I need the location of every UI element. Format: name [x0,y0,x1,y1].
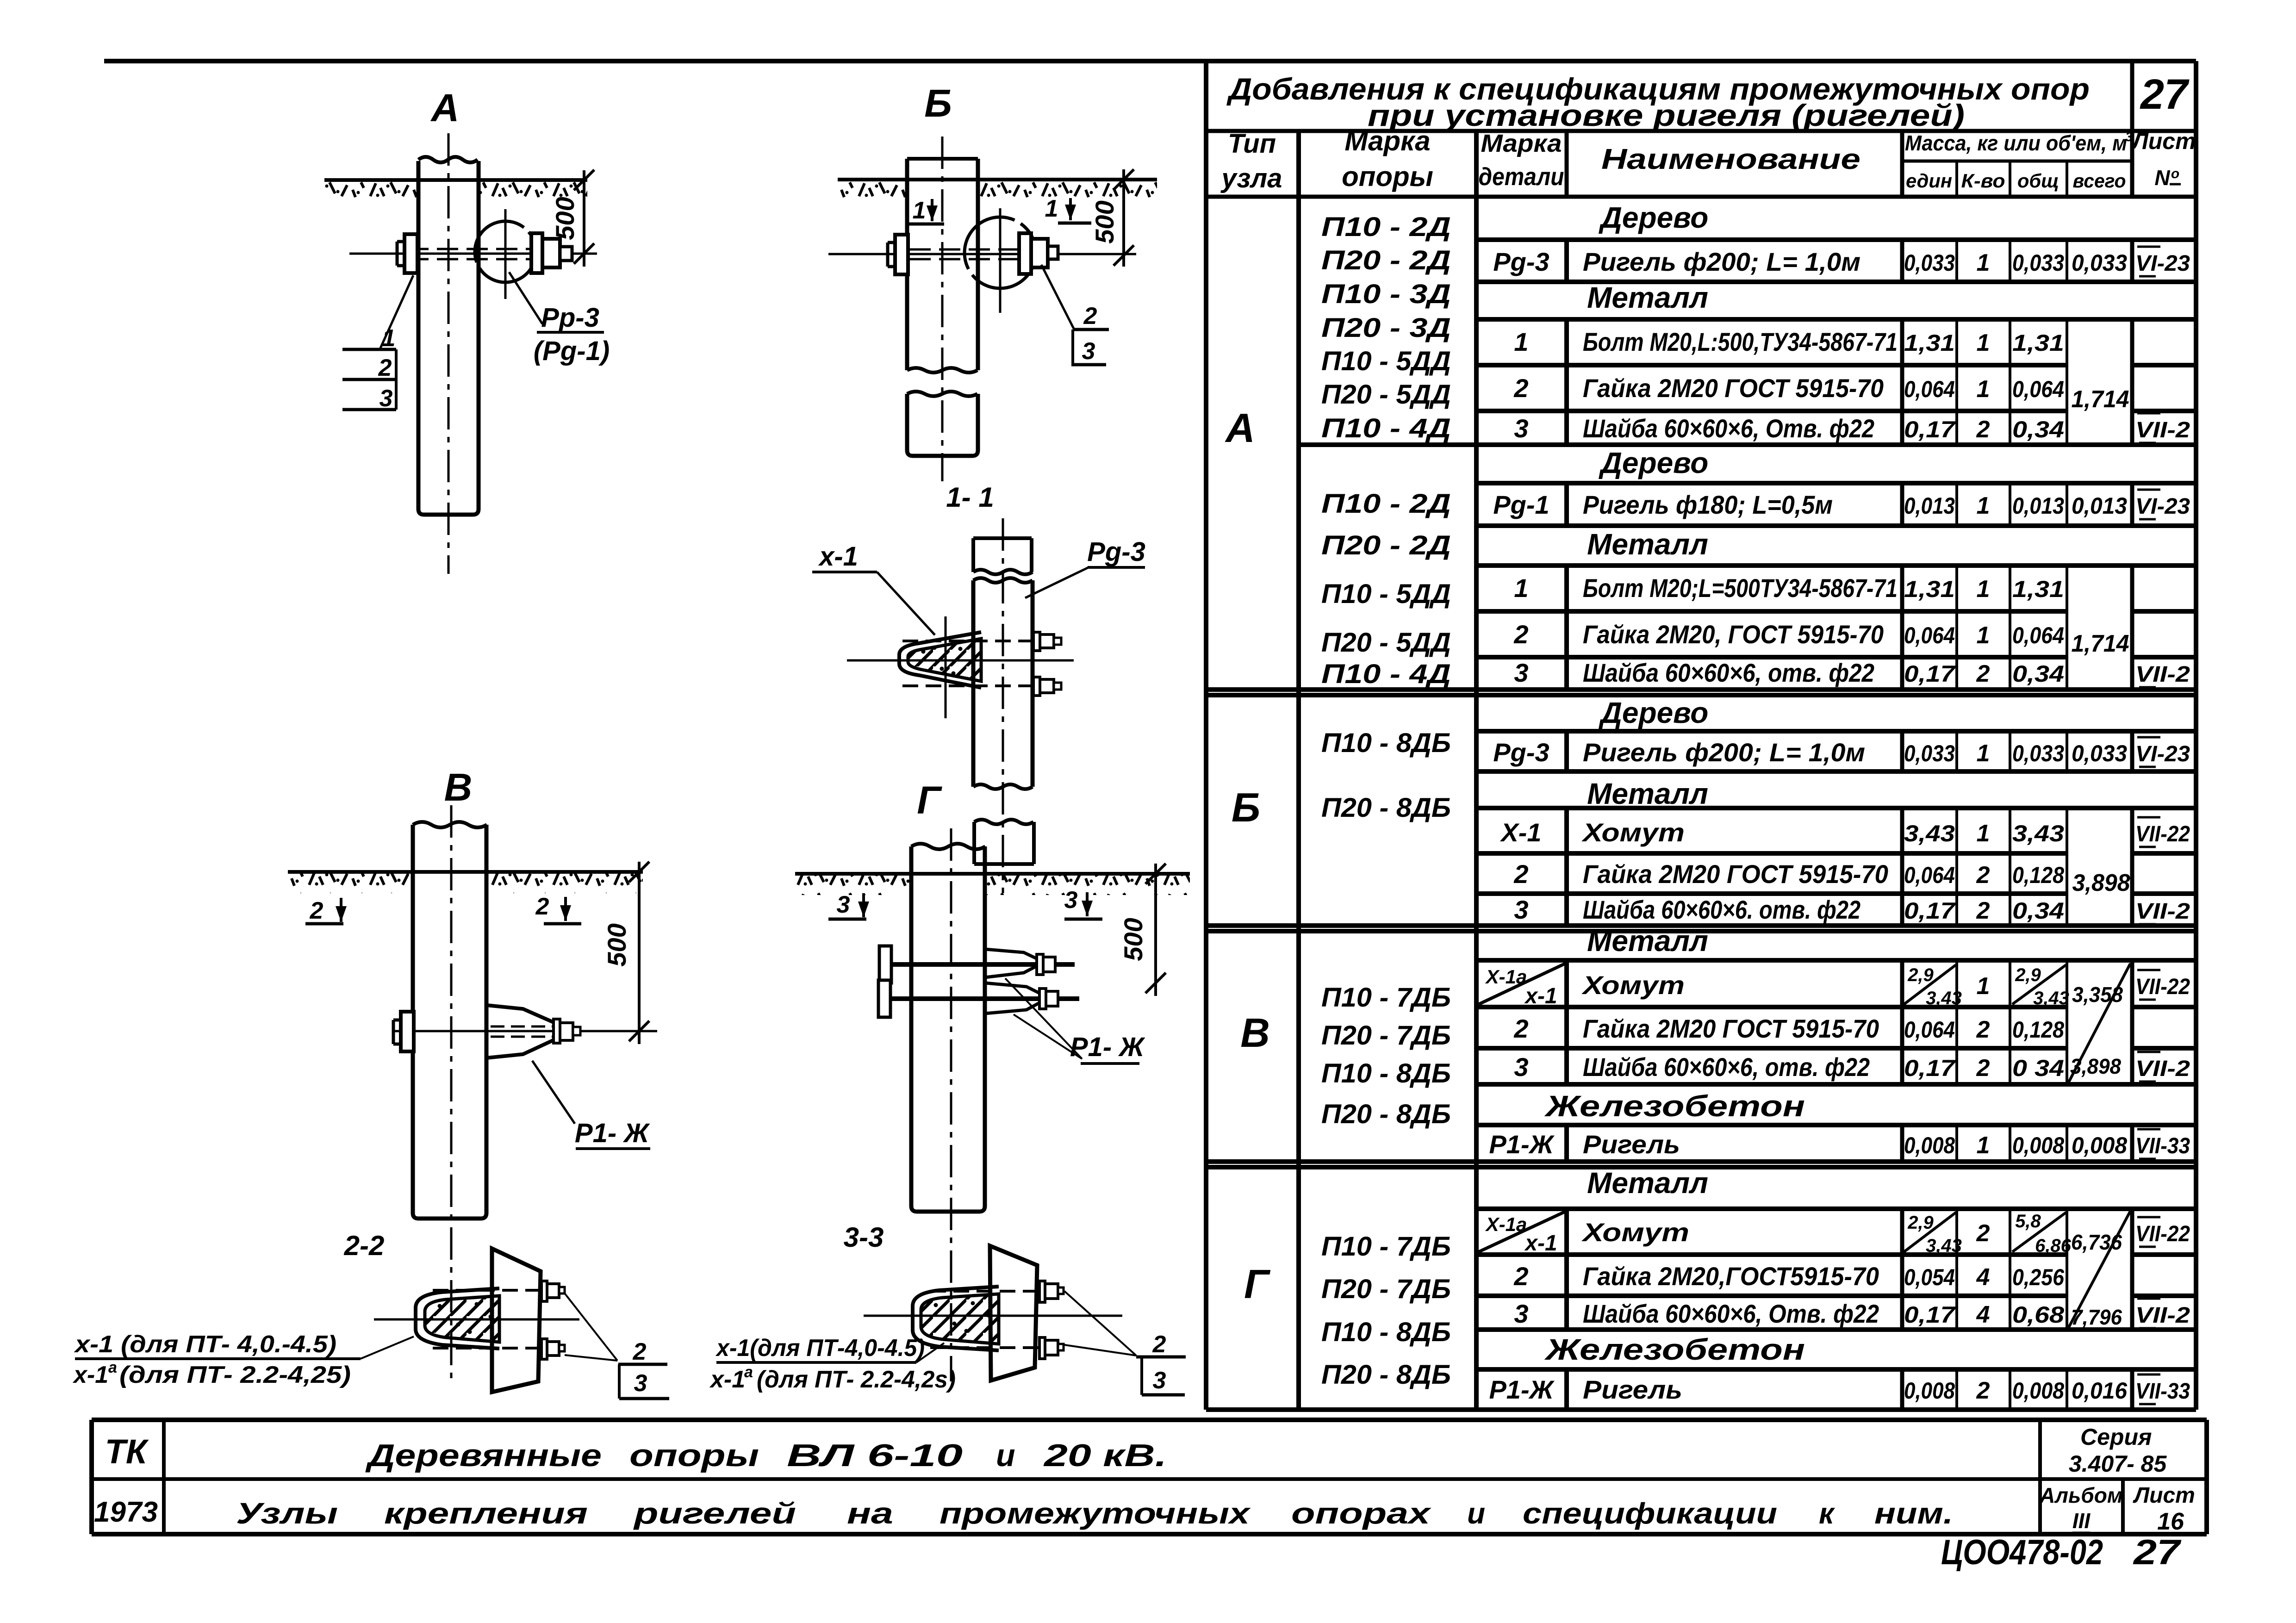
section 1-1 riegel dots [921,650,926,654]
svg-text:1: 1 [1514,327,1528,356]
node B dimension 500 [1122,169,1125,267]
svg-text:1: 1 [1977,1132,1990,1159]
svg-text:3: 3 [837,891,850,918]
svg-text:6,86: 6,86 [2035,1236,2072,1256]
svg-text:х-1: х-1 [1524,1231,1557,1256]
node A bolt axis line [349,253,597,255]
node V bolt axis [394,1030,657,1032]
svg-text:1973: 1973 [94,1496,158,1528]
svg-text:Лист: Лист [2131,128,2196,154]
svg-text:(для ПТ- 2.2-4,25): (для ПТ- 2.2-4,25) [119,1362,351,1388]
node B riegel circle [964,217,1036,288]
svg-text:Узлы: Узлы [236,1497,338,1530]
node V washer left [401,1012,414,1051]
svg-text:2: 2 [1152,1331,1166,1358]
svg-text:3: 3 [1514,895,1528,924]
svg-text:VII-2: VII-2 [2135,1303,2190,1328]
section 2-2 riegel dots [438,1304,442,1308]
svg-text:500: 500 [1119,918,1148,961]
node B washer left [895,235,908,274]
svg-text:1: 1 [1977,492,1990,519]
svg-text:2,9: 2,9 [2015,965,2041,985]
svg-text:16: 16 [2157,1508,2184,1535]
svg-text:3: 3 [1082,338,1095,365]
node B ground hatch [838,181,907,201]
node A nut and washer right [531,233,542,273]
svg-text:27: 27 [2133,1533,2182,1572]
svg-text:ТК: ТК [105,1432,149,1471]
svg-text:0,34: 0,34 [2012,661,2064,687]
svg-text:А: А [430,86,460,130]
svg-text:а: а [108,1359,117,1376]
svg-text:0,064: 0,064 [2012,376,2064,402]
svg-text:3: 3 [1153,1367,1166,1394]
svg-text:1,31: 1,31 [2012,330,2064,356]
svg-text:3: 3 [1514,1299,1528,1328]
svg-text:Масса, кг или об'ем, м: Масса, кг или об'ем, м [1905,131,2127,155]
svg-text:Р1- Ж: Р1- Ж [1070,1032,1145,1062]
title block frame [92,1418,2207,1422]
svg-text:Рр-3: Рр-3 [541,303,599,333]
node G pole [911,846,985,1212]
svg-text:П10 - 2Д: П10 - 2Д [1321,489,1451,519]
svg-text:0,17: 0,17 [1904,417,1956,442]
svg-text:х-1 (для ПТ- 4,0.-4.5): х-1 (для ПТ- 4,0.-4.5) [74,1331,336,1358]
svg-text:Хомут: Хомут [1581,970,1685,1000]
svg-text:4: 4 [1976,1301,1990,1328]
svg-text:Металл: Металл [1587,528,1708,561]
node V riegel R1-Zh [486,1005,561,1058]
svg-text:х-1: х-1 [1524,984,1557,1008]
svg-text:3-3: 3-3 [844,1222,884,1253]
svg-text:2-2: 2-2 [344,1230,385,1261]
svg-text:(Рg-1): (Рg-1) [534,336,610,366]
node V dimension 500 [638,862,641,1044]
section 2-2 clamp inner / riegel [425,1296,499,1342]
svg-text:5,8: 5,8 [2015,1211,2041,1231]
svg-text:VII-2: VII-2 [2135,662,2190,687]
svg-text:Серия: Серия [2080,1424,2152,1450]
svg-text:Р1-Ж: Р1-Ж [1489,1130,1555,1159]
svg-text:Гайка 2М20 ГОСТ 5915-70: Гайка 2М20 ГОСТ 5915-70 [1583,1014,1879,1043]
section 1-1 crosshair [945,616,947,718]
svg-text:П20 - 2Д: П20 - 2Д [1321,530,1451,560]
svg-text:VII-22: VII-22 [2135,822,2190,846]
node G pole centerline [950,828,952,1381]
svg-text:0,34: 0,34 [2012,898,2064,924]
svg-text:Марка: Марка [1481,130,1562,157]
svg-text:Ригель ф200; L= 1,0м: Ригель ф200; L= 1,0м [1583,738,1865,767]
svg-text:3: 3 [2125,130,2133,144]
svg-text:N: N [2154,166,2170,190]
svg-text:промежуточных: промежуточных [940,1497,1251,1530]
svg-text:к: к [1819,1497,1836,1530]
node V nut at tip [554,1019,560,1043]
svg-text:х-1(для ПТ-4,0-4.5): х-1(для ПТ-4,0-4.5) [715,1335,925,1362]
svg-text:2: 2 [1976,897,1990,924]
svg-text:П20 - 5ДД: П20 - 5ДД [1321,379,1451,410]
svg-text:0,033: 0,033 [2012,250,2064,276]
svg-text:Г: Г [1244,1261,1271,1307]
svg-text:0,064: 0,064 [2012,622,2064,648]
svg-text:1,714: 1,714 [2072,386,2129,413]
section 2-2 pole piece [492,1249,541,1392]
svg-text:3,898: 3,898 [2072,870,2130,896]
node B leader to items 2 3 [1041,265,1074,329]
node B ground line [838,178,1157,181]
section 1-1 pole [973,580,1033,787]
svg-text:1: 1 [1977,622,1990,649]
svg-text:VII-33: VII-33 [2135,1379,2190,1404]
svg-text:0,013: 0,013 [1904,493,1955,519]
svg-text:0,064: 0,064 [1904,622,1955,648]
svg-text:0,033: 0,033 [1904,250,1955,276]
svg-text:2: 2 [1513,1262,1528,1291]
svg-text:3,43: 3,43 [2033,988,2069,1008]
svg-text:Шайба 60×60×6. отв. ф22: Шайба 60×60×6. отв. ф22 [1583,895,1860,924]
section 1-1 centerline [1002,518,1004,893]
svg-text:VI-23: VI-23 [2135,251,2190,276]
svg-text:Лист: Лист [2133,1483,2195,1508]
svg-text:Наименование: Наименование [1601,143,1860,175]
section 1-1 bolts [902,640,1033,642]
section 3-3 leaders to 2 3 [1064,1291,1136,1356]
node G bolts through pole [879,962,1075,967]
node A leader to items 1 2 3 [380,275,413,348]
svg-text:П20 - 8ДБ: П20 - 8ДБ [1321,793,1451,823]
svg-text:Шайба 60×60×6, отв. ф22: Шайба 60×60×6, отв. ф22 [1583,1052,1870,1082]
svg-text:Железобетон: Железобетон [1544,1089,1805,1123]
node A riegel Pp-3 circle [475,221,536,282]
node G washers left [879,946,891,983]
svg-text:3: 3 [380,385,393,412]
svg-text:П10 - 8ДБ: П10 - 8ДБ [1321,728,1451,758]
svg-text:VI-23: VI-23 [2135,742,2190,766]
node V ground line [288,870,643,874]
svg-text:Б: Б [924,81,952,125]
svg-text:0,064: 0,064 [1904,1017,1955,1043]
svg-text:VII-33: VII-33 [2135,1134,2190,1158]
svg-text:2: 2 [535,893,549,920]
svg-text:0,008: 0,008 [2012,1378,2064,1404]
svg-text:500: 500 [602,923,631,966]
svg-text:П10 - 5ДД: П10 - 5ДД [1321,579,1451,609]
svg-text:Рg-3: Рg-3 [1493,738,1549,767]
svg-text:Гайка 2М20,ГОСТ5915-70: Гайка 2М20,ГОСТ5915-70 [1583,1262,1879,1291]
svg-text:III: III [2072,1509,2091,1533]
svg-text:х-1: х-1 [818,541,858,572]
node V pole centerline [450,805,453,1384]
node A ground line [324,178,587,182]
svg-text:Гайка 2М20, ГОСТ 5915-70: Гайка 2М20, ГОСТ 5915-70 [1583,620,1884,649]
svg-text:0,033: 0,033 [1904,740,1955,766]
svg-text:0,008: 0,008 [2012,1132,2064,1158]
svg-text:Тип: Тип [1228,129,1276,159]
svg-text:П20 - 3Д: П20 - 3Д [1321,313,1451,343]
svg-text:Хомут: Хомут [1581,818,1685,847]
node V pole [413,825,486,1219]
node A label Pp-3 (Pg-1) [509,272,542,324]
svg-text:Болт М20;L=500ТУ34-5867-71: Болт М20;L=500ТУ34-5867-71 [1583,573,1898,603]
svg-text:VI-23: VI-23 [2135,494,2190,519]
svg-text:1: 1 [1977,376,1990,403]
svg-text:2: 2 [310,897,324,924]
svg-text:Рg-3: Рg-3 [1087,537,1145,567]
svg-text:П20 - 7ДБ: П20 - 7ДБ [1321,1020,1451,1051]
node B nut and washer right [1019,233,1031,274]
svg-text:3: 3 [1514,1052,1528,1082]
svg-text:0,128: 0,128 [2012,1017,2064,1043]
svg-text:2: 2 [1976,1016,1990,1043]
svg-text:0,256: 0,256 [2012,1264,2065,1290]
svg-text:ним.: ним. [1874,1497,1953,1530]
svg-text:0,064: 0,064 [1904,376,1955,402]
svg-text:Гайка 2М20 ГОСТ 5915-70: Гайка 2М20 ГОСТ 5915-70 [1583,373,1884,403]
svg-text:6,736: 6,736 [2071,1230,2122,1254]
svg-text:ВЛ 6-10: ВЛ 6-10 [787,1438,963,1473]
svg-text:Г: Г [917,778,942,822]
svg-text:1,31: 1,31 [1904,330,1955,356]
svg-text:опорах: опорах [1291,1497,1431,1530]
svg-text:Р1-Ж: Р1-Ж [1489,1375,1555,1404]
svg-text:3,898: 3,898 [2070,1054,2121,1078]
svg-text:Дерево: Дерево [1599,201,1709,234]
svg-text:ЦОО478-02: ЦОО478-02 [1941,1533,2103,1572]
node A ground hatch [324,182,418,203]
svg-text:П20 - 7ДБ: П20 - 7ДБ [1321,1274,1451,1304]
svg-text:3,43: 3,43 [1926,988,1962,1008]
svg-text:VII-2: VII-2 [2135,899,2190,924]
section 1-1 clamp X-1 outer [899,632,981,688]
node A pole [418,161,479,515]
svg-text:3,358: 3,358 [2072,983,2123,1007]
svg-text:0,34: 0,34 [2012,417,2064,442]
node G ground hatch [795,876,911,895]
svg-text:спецификации: спецификации [1523,1497,1777,1530]
svg-text:1: 1 [1977,330,1990,356]
svg-text:А: А [1225,405,1255,451]
svg-text:0,008: 0,008 [2072,1132,2127,1158]
svg-text:1: 1 [1977,576,1990,603]
svg-text:2: 2 [1976,1220,1990,1247]
section 2-2 clamp outer [416,1288,499,1349]
svg-text:1: 1 [1977,820,1990,847]
svg-text:Рg-1: Рg-1 [1493,490,1549,519]
svg-text:3,43: 3,43 [1904,821,1955,846]
svg-text:Металл: Металл [1587,924,1708,958]
section 2-2 bolts [433,1289,541,1292]
node B pole centerline [941,137,944,481]
section 3-3 riegel dots [934,1303,938,1307]
svg-text:3: 3 [634,1370,647,1397]
svg-text:Рg-3: Рg-3 [1493,247,1549,276]
svg-text:2: 2 [1083,303,1097,330]
svg-text:и: и [996,1438,1015,1473]
svg-text:0,064: 0,064 [1904,862,1955,888]
svg-text:П10 - 7ДБ: П10 - 7ДБ [1321,983,1451,1013]
svg-text:1,714: 1,714 [2072,630,2129,657]
svg-text:П20 - 5ДД: П20 - 5ДД [1321,628,1451,658]
section 3-3 pole piece [990,1246,1037,1380]
svg-text:П10 - 4Д: П10 - 4Д [1321,413,1451,443]
svg-text:Хомут: Хомут [1581,1218,1689,1247]
svg-text:1: 1 [1977,740,1990,767]
svg-text:2: 2 [1976,416,1990,443]
section 1-1 pole top stub [973,538,1032,572]
svg-text:0 34: 0 34 [2012,1055,2064,1081]
svg-text:2: 2 [1976,862,1990,889]
svg-text:0,033: 0,033 [2012,740,2064,766]
svg-text:П20 - 2Д: П20 - 2Д [1321,245,1451,275]
svg-text:и: и [1467,1497,1485,1530]
svg-text:(для ПТ- 2.2-4,2s): (для ПТ- 2.2-4,2s) [757,1366,956,1393]
svg-text:0,016: 0,016 [2072,1378,2128,1404]
svg-text:Марка: Марка [1344,125,1430,156]
svg-text:2: 2 [1513,373,1528,403]
svg-text:1: 1 [1514,573,1528,603]
diagonal split cells V [1479,964,1565,1004]
svg-text:х-1: х-1 [72,1362,108,1388]
svg-text:1: 1 [913,197,926,224]
svg-text:един: един [1906,170,1952,192]
svg-text:2: 2 [378,354,392,381]
svg-text:1- 1: 1- 1 [946,482,994,513]
svg-text:Р1- Ж: Р1- Ж [575,1118,650,1148]
svg-text:0,013: 0,013 [2072,493,2127,519]
svg-text:500: 500 [550,197,579,240]
svg-text:Дерево: Дерево [1599,696,1709,729]
svg-text:В: В [444,765,473,809]
svg-text:2: 2 [1976,1377,1990,1404]
svg-text:0,17: 0,17 [1904,1055,1956,1081]
svg-text:Х-1а: Х-1а [1485,966,1527,988]
svg-text:3: 3 [1064,887,1078,914]
svg-text:0,008: 0,008 [1904,1132,1955,1158]
svg-text:2: 2 [1976,660,1990,687]
svg-text:П10 - 3Д: П10 - 3Д [1321,279,1451,309]
svg-text:Деревянные: Деревянные [365,1438,602,1473]
svg-text:0,008: 0,008 [1904,1378,1955,1404]
svg-text:Б: Б [1232,784,1260,830]
node G dimension 500 [1154,864,1157,996]
node G riegel lower [985,983,1049,1014]
svg-text:o: o [2171,166,2179,181]
svg-text:Металл: Металл [1587,281,1708,314]
svg-text:1: 1 [382,325,396,352]
node A washer item 3 left [404,234,417,273]
svg-text:1,31: 1,31 [1904,576,1955,602]
section 3-3 clamp outer [913,1287,999,1350]
svg-text:2: 2 [1513,1014,1528,1043]
svg-text:3.407- 85: 3.407- 85 [2069,1451,2167,1477]
svg-text:0,17: 0,17 [1904,1302,1956,1328]
section 1-1 pole bottom stub [974,822,1034,864]
node A bolt shaft [407,248,533,250]
svg-text:х-1: х-1 [709,1366,745,1393]
section 3-3 crosshair [864,1315,1122,1317]
node G label R1-Zh [1005,978,1082,1059]
node B pole lower stub [907,394,978,456]
svg-text:П20 - 8ДБ: П20 - 8ДБ [1321,1099,1451,1129]
svg-text:опоры: опоры [1342,161,1433,192]
section 2-2 leaders to 2 3 [564,1292,617,1361]
svg-text:20 кВ.: 20 кВ. [1043,1438,1167,1473]
node A pole centerline [448,133,450,574]
svg-text:Шайба 60×60×6, отв. ф22: Шайба 60×60×6, отв. ф22 [1583,658,1874,687]
svg-text:2,9: 2,9 [1907,965,1934,985]
svg-text:0,033: 0,033 [2072,250,2127,276]
roman numeral bars [2137,246,2160,248]
svg-text:Железобетон: Железобетон [1544,1333,1805,1366]
diagonal split cells G [1479,1212,1565,1252]
svg-text:П10 - 4Д: П10 - 4Д [1321,659,1451,689]
svg-text:опоры: опоры [629,1438,759,1473]
svg-text:при установке ригеля (ригел: при установке ригеля (ригелей) [1368,98,1965,132]
svg-text:27: 27 [2140,71,2190,118]
section 3-3 clamp inner / riegel [921,1294,999,1344]
node V ground hatch [288,874,413,893]
node V label R1-Zh [532,1061,575,1124]
svg-text:Ригель ф180; L=0,5м: Ригель ф180; L=0,5м [1583,490,1833,519]
svg-text:0,128: 0,128 [2012,862,2064,888]
svg-text:2: 2 [633,1338,647,1365]
svg-text:0,054: 0,054 [1904,1264,1955,1290]
svg-text:0,17: 0,17 [1904,898,1956,924]
svg-text:0,17: 0,17 [1904,661,1956,687]
section 1-1 clamp inner / riegel section [908,639,981,681]
svg-text:крепления: крепления [384,1497,588,1530]
svg-text:0,68: 0,68 [2012,1302,2064,1328]
svg-text:0,033: 0,033 [2072,740,2127,766]
svg-text:3,43: 3,43 [1926,1236,1962,1256]
svg-text:Ригель: Ригель [1583,1130,1680,1159]
svg-text:1: 1 [1977,973,1990,1000]
node G nuts [1037,954,1043,975]
svg-text:1: 1 [1977,249,1990,276]
node G riegel upper [985,949,1044,977]
svg-text:Ригель: Ригель [1583,1375,1682,1404]
node G ground line [795,872,1190,876]
svg-text:Болт М20,L:500,ТУ34-5867-71: Болт М20,L:500,ТУ34-5867-71 [1583,327,1898,356]
svg-text:Х-1а: Х-1а [1485,1213,1527,1235]
svg-text:VII-22: VII-22 [2135,975,2190,999]
svg-text:ригелей: ригелей [633,1497,796,1530]
svg-text:2,9: 2,9 [1907,1213,1934,1233]
svg-text:2: 2 [1976,1055,1990,1082]
svg-text:VII-22: VII-22 [2135,1222,2190,1246]
svg-text:Шайба 60×60×6, Отв. ф22: Шайба 60×60×6, Отв. ф22 [1583,414,1874,443]
svg-text:Ригель ф200; L= 1,0м: Ригель ф200; L= 1,0м [1583,247,1860,276]
svg-text:2: 2 [1513,859,1528,889]
svg-text:7,796: 7,796 [2071,1305,2122,1329]
section 2-2 crosshair [374,1318,579,1321]
svg-text:500: 500 [1090,200,1119,243]
svg-text:узла: узла [1220,163,1282,193]
svg-text:П10 - 2Д: П10 - 2Д [1321,212,1451,242]
svg-text:1,31: 1,31 [2012,576,2064,602]
node B bolt axis line [828,253,1136,255]
svg-text:П10 - 5ДД: П10 - 5ДД [1321,346,1451,376]
svg-text:VII-2: VII-2 [2135,1057,2190,1081]
svg-text:П10 - 8ДБ: П10 - 8ДБ [1321,1317,1451,1347]
svg-text:2: 2 [1513,620,1528,649]
svg-text:на: на [847,1497,893,1530]
svg-text:детали: детали [1479,163,1564,191]
svg-text:Дерево: Дерево [1599,446,1709,479]
svg-text:П20 - 8ДБ: П20 - 8ДБ [1321,1360,1451,1390]
svg-text:VII-2: VII-2 [2135,418,2190,442]
svg-text:а: а [744,1363,753,1381]
